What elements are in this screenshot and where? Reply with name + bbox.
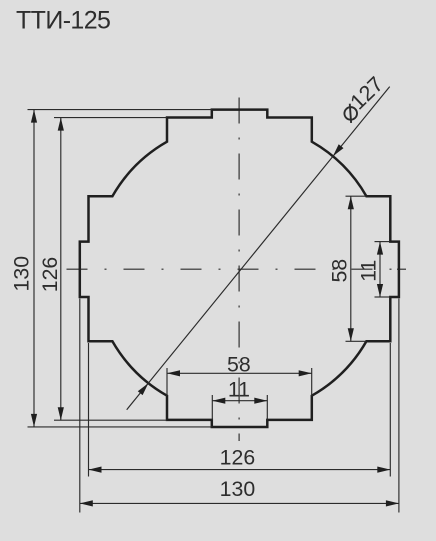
dimension 58 bottom (167, 353, 312, 396)
diameter symbol (341, 103, 360, 122)
extension line bottom 126 level (54, 419, 167, 421)
centerline horizontal (67, 268, 393, 270)
extension line bottom-left bump (79, 299, 81, 513)
extension line bottom-left flat (88, 343, 90, 477)
dimension 11 bottom (212, 377, 267, 420)
svg-text:126: 126 (220, 445, 256, 469)
dimension 58 right (328, 196, 367, 341)
svg-text:126: 126 (38, 257, 62, 293)
dimension 130 bottom (80, 477, 399, 506)
dimension 126 left (38, 118, 64, 421)
extension line bottom-right bump (398, 299, 400, 513)
extension line top 130 level (28, 109, 213, 111)
svg-text:58: 58 (227, 353, 251, 377)
svg-text:58: 58 (328, 259, 352, 283)
dimension 11 right (357, 242, 391, 297)
svg-text:130: 130 (220, 477, 256, 501)
centerline vertical (238, 98, 240, 442)
extension line top 126 level (54, 117, 167, 119)
svg-text:11: 11 (357, 260, 381, 282)
dimension 126 bottom (89, 445, 391, 472)
svg-text:ТТИ-125: ТТИ-125 (16, 6, 110, 34)
svg-text:130: 130 (10, 256, 34, 292)
extension line bottom 130 level (28, 426, 213, 428)
svg-text:11: 11 (228, 377, 250, 401)
extension line bottom-right flat (389, 343, 391, 477)
label ⌀127 (336, 72, 389, 124)
body outline (80, 110, 399, 427)
diameter leader line ⌀127 (127, 87, 390, 410)
dimension 130 left (10, 110, 37, 427)
